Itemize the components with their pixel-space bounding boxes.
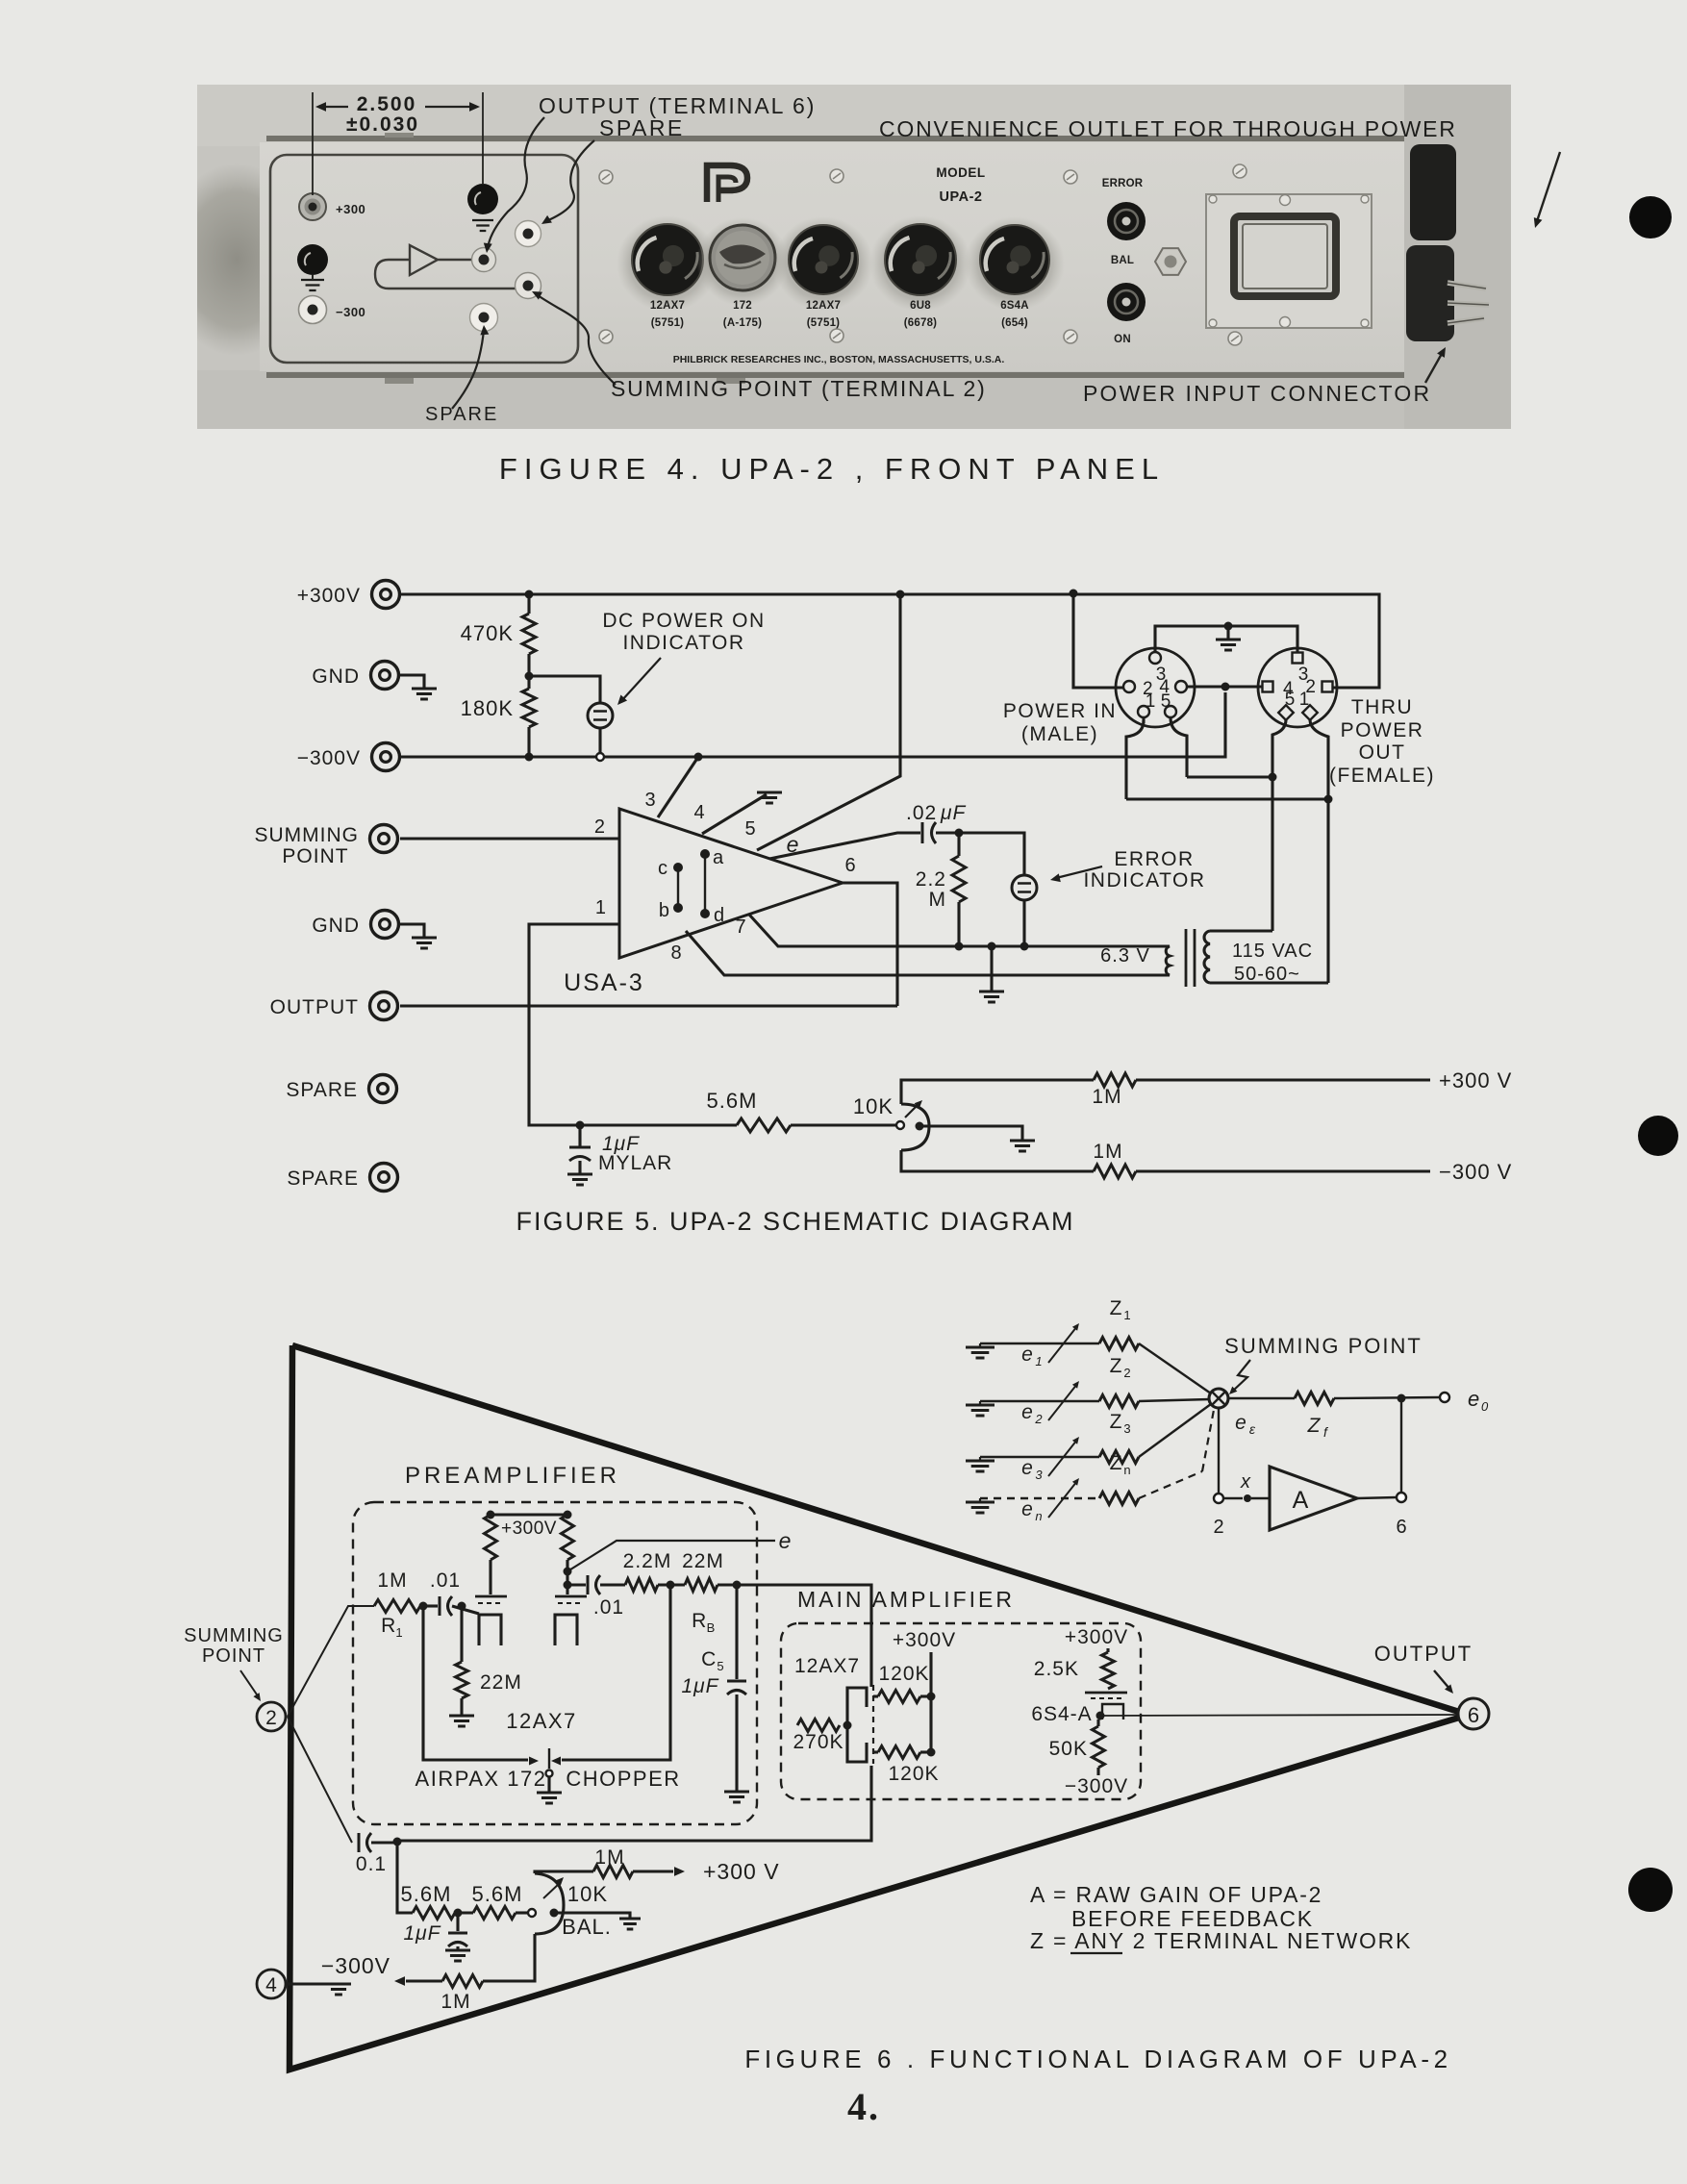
resistor 470K: [527, 594, 530, 614]
svg-text:SUMMING POINT (TERMINAL 2): SUMMING POINT (TERMINAL 2): [611, 376, 987, 401]
arrow to lamp: [621, 658, 661, 701]
wire to -300 via 1M: [901, 1150, 1094, 1171]
svg-text:22M: 22M: [682, 1550, 724, 1572]
ground 6.3 rail: [990, 946, 993, 991]
dimension lines 2.500: [313, 92, 483, 195]
binder dot: [1629, 196, 1672, 238]
svg-text:1M: 1M: [441, 1991, 470, 2013]
svg-text:AIRPAX 172: AIRPAX 172: [415, 1767, 547, 1791]
svg-text:(5751): (5751): [651, 317, 684, 329]
airpax 172 chopper: [423, 1606, 528, 1760]
jack spare top: [516, 221, 541, 247]
wire cathode to output: [1100, 1715, 1458, 1716]
capacitor .01 first: [423, 1604, 438, 1607]
resistor Z3: [1099, 1451, 1139, 1464]
arrow to thru power connector: [1537, 152, 1560, 221]
svg-text:Z = ANY 2 TERMINAL NETWORK: Z = ANY 2 TERMINAL NETWORK: [1030, 1928, 1412, 1953]
svg-text:+300V: +300V: [297, 585, 361, 607]
svg-text:INDICATOR: INDICATOR: [1083, 869, 1205, 891]
terminal SPARE: [370, 1164, 398, 1192]
svg-text:DC POWER ON: DC POWER ON: [602, 610, 765, 632]
wire pin1: [529, 924, 737, 1125]
tube 12AX7: [617, 215, 718, 312]
svg-text:5.6M: 5.6M: [707, 1089, 758, 1113]
panel amplifier symbol: [375, 260, 516, 289]
svg-text:SPARE: SPARE: [287, 1167, 359, 1190]
arrow to power input connector: [1425, 352, 1443, 383]
resistor 120K upper: [873, 1694, 878, 1697]
svg-text:INDICATOR: INDICATOR: [622, 632, 744, 654]
tube 172 chopper: [696, 217, 789, 306]
svg-text:12AX7: 12AX7: [794, 1655, 860, 1677]
wire pin4 to ground: [702, 794, 767, 834]
node terminal 2: [257, 1702, 286, 1731]
wire z3 to node: [1139, 1404, 1211, 1457]
tube 12AX7 preamp right triode: [555, 1595, 587, 1598]
svg-text:OUTPUT: OUTPUT: [270, 996, 359, 1018]
svg-text:10K: 10K: [567, 1882, 608, 1906]
svg-text:4: 4: [693, 802, 704, 823]
svg-text:(5751): (5751): [807, 317, 840, 329]
wire down to 5.6M: [397, 1842, 413, 1913]
svg-text:−300 V: −300 V: [1439, 1160, 1512, 1184]
wire to +300 via 1M: [901, 1080, 1094, 1104]
svg-text:e: e: [1021, 1343, 1033, 1366]
svg-text:6: 6: [1396, 1517, 1406, 1538]
node terminal 6 output: [1458, 1698, 1489, 1729]
capacitor .02uF: [921, 822, 924, 843]
summing node: [1209, 1389, 1228, 1408]
wire pin3 to -300V: [658, 757, 698, 817]
terminal -300V: [372, 743, 400, 771]
wire lower grid to 0.1: [397, 1766, 871, 1841]
transformer core: [1185, 929, 1188, 987]
wire z2 to node: [1139, 1399, 1210, 1401]
capacitor .01 second: [564, 1581, 572, 1590]
svg-text:e: e: [1021, 1457, 1033, 1479]
svg-text:2: 2: [1123, 1366, 1130, 1380]
jack +300: [299, 193, 326, 220]
svg-text:f: f: [1323, 1424, 1329, 1440]
svg-text:5: 5: [744, 818, 755, 840]
resistor 2.2M: [957, 833, 960, 856]
wire pin2 summing: [400, 837, 619, 840]
wire e tap: [564, 1568, 572, 1576]
svg-text:1: 1: [595, 897, 606, 918]
resistor 120K lower: [873, 1750, 878, 1753]
resistor Z1: [1099, 1338, 1139, 1350]
wire node2 to R1: [288, 1606, 374, 1717]
svg-text:3: 3: [644, 790, 655, 811]
wire male pin3 to female pin3: [1155, 626, 1297, 652]
variable arrow e3: [1048, 1440, 1077, 1476]
svg-text:OUTPUT: OUTPUT: [1374, 1642, 1473, 1666]
svg-text:FIGURE 6 . FUNCTIONAL DIAGRAM: FIGURE 6 . FUNCTIONAL DIAGRAM OF UPA-2: [744, 2045, 1451, 2073]
svg-text:+300V: +300V: [501, 1519, 557, 1539]
resistor plate left: [485, 1515, 497, 1560]
svg-text:SUMMING: SUMMING: [184, 1625, 284, 1646]
wire zn to node dashed: [1139, 1471, 1202, 1498]
wire male pin1 down: [1142, 717, 1145, 723]
ground source e2: [979, 1401, 981, 1405]
ground gnd1: [400, 675, 424, 688]
svg-text:+300V: +300V: [893, 1629, 956, 1651]
dc power on indicator lamp: [529, 676, 600, 703]
svg-text:e: e: [779, 1528, 792, 1553]
svg-text:e: e: [1021, 1498, 1033, 1520]
wire +300 main: [929, 1652, 932, 1752]
svg-text:.01: .01: [430, 1569, 461, 1592]
svg-text:1M: 1M: [1093, 1141, 1122, 1163]
terminal GND: [371, 911, 399, 939]
svg-text:Z: Z: [1110, 1452, 1122, 1474]
resistor 5.6M second: [473, 1907, 516, 1920]
wire z1 to node: [1139, 1343, 1211, 1393]
wire pin8: [686, 931, 1162, 975]
svg-text:270K: 270K: [793, 1731, 843, 1753]
svg-text:1μF: 1μF: [681, 1675, 718, 1697]
svg-text:MAIN AMPLIFIER: MAIN AMPLIFIER: [797, 1587, 1015, 1612]
transformer 6.3V winding: [1162, 946, 1170, 975]
capacitor 1uF mylar: [576, 1121, 585, 1130]
svg-text:ERROR: ERROR: [1114, 848, 1194, 870]
node terminal 4: [257, 1970, 286, 1998]
svg-text:MODEL: MODEL: [936, 165, 985, 180]
svg-text:6S4-A: 6S4-A: [1031, 1703, 1092, 1725]
lightning arrow: [1232, 1360, 1250, 1392]
svg-text:n: n: [1035, 1509, 1042, 1523]
svg-text:1M: 1M: [377, 1569, 407, 1592]
svg-text:12AX7: 12AX7: [650, 300, 685, 312]
photo background: [197, 85, 1511, 429]
svg-text:5: 5: [1285, 690, 1296, 710]
leader spare bottom: [452, 329, 484, 409]
svg-text:Z: Z: [1307, 1415, 1322, 1437]
wire female pin5 down: [1272, 719, 1286, 931]
indicator on: [1107, 283, 1146, 321]
wire pin4 to pin4: [1187, 685, 1262, 688]
svg-text:1: 1: [1299, 690, 1310, 710]
connector thru power out female: [1258, 648, 1337, 727]
svg-text:−300V: −300V: [1065, 1775, 1128, 1797]
svg-text:5.6M: 5.6M: [472, 1882, 523, 1906]
svg-text:2: 2: [594, 816, 605, 838]
resistor 2.5K: [1106, 1648, 1109, 1652]
jack summing point: [516, 273, 541, 299]
svg-text:22M: 22M: [480, 1671, 522, 1694]
ground pin3 link: [1226, 626, 1229, 639]
main amplifier dashed box: [781, 1623, 1141, 1799]
svg-text:180K: 180K: [461, 696, 514, 720]
svg-text:UPA-2: UPA-2: [940, 189, 983, 205]
chassis bottom edge: [266, 372, 1404, 378]
svg-text:6.3 V: 6.3 V: [1100, 945, 1150, 966]
svg-text:−300V: −300V: [297, 747, 361, 769]
svg-text:1M: 1M: [1092, 1086, 1121, 1108]
wiper ground: [554, 1913, 630, 1918]
svg-text:M: M: [929, 889, 947, 911]
svg-text:1μF: 1μF: [403, 1922, 441, 1945]
terminal GND: [371, 662, 399, 690]
svg-text:SPARE: SPARE: [286, 1079, 358, 1101]
resistor 2.2M preamp: [625, 1579, 658, 1592]
jack -300: [299, 296, 327, 324]
svg-text:GND: GND: [312, 665, 360, 688]
svg-text:1: 1: [1035, 1354, 1042, 1368]
wire output terminal: [400, 1004, 897, 1007]
jack black left: [297, 244, 328, 275]
svg-text:+300: +300: [336, 202, 365, 216]
svg-text:SUMMING POINT: SUMMING POINT: [1224, 1334, 1423, 1358]
svg-text:6U8: 6U8: [910, 300, 931, 312]
svg-text:3: 3: [1123, 1421, 1130, 1436]
svg-text:172: 172: [733, 300, 752, 312]
svg-text:1M: 1M: [594, 1846, 624, 1869]
svg-text:2: 2: [265, 1707, 277, 1729]
svg-text:(A-175): (A-175): [723, 317, 762, 329]
balance pot 10K: [896, 1121, 904, 1129]
wire +300V rail: [400, 594, 1379, 688]
svg-text:6: 6: [844, 855, 855, 876]
svg-text:OUT: OUT: [1359, 741, 1406, 764]
svg-text:SUMMING: SUMMING: [255, 824, 360, 846]
binder dot: [1628, 1868, 1673, 1912]
svg-text:c: c: [658, 858, 667, 879]
svg-text:FIGURE 5. UPA-2 SCHEMATIC DIAG: FIGURE 5. UPA-2 SCHEMATIC DIAGRAM: [516, 1207, 1074, 1236]
capacitor 1uF bal: [456, 1913, 459, 1931]
jack output white: [472, 248, 496, 272]
svg-text:+300V: +300V: [1065, 1626, 1128, 1648]
connector power in male: [1116, 648, 1195, 727]
svg-text:10K: 10K: [853, 1094, 894, 1118]
tube 12AX7: [773, 216, 873, 311]
leader summing point: [535, 293, 616, 385]
svg-text:2.2M: 2.2M: [623, 1550, 672, 1572]
svg-text:0: 0: [1481, 1399, 1489, 1414]
wire node2 to 0.1 cap: [288, 1717, 352, 1843]
resistor 5.6M: [737, 1118, 791, 1132]
resistor Zf: [1228, 1397, 1295, 1399]
svg-text:2: 2: [1213, 1517, 1223, 1538]
jack spare bottom: [470, 304, 498, 332]
wire source e3: [980, 1456, 1099, 1458]
svg-text:2.500: 2.500: [357, 93, 417, 115]
power input connector body: [1410, 144, 1456, 240]
balance pot 10K fig6: [528, 1909, 536, 1917]
svg-text:USA-3: USA-3: [564, 969, 644, 996]
tube 12AX7 main grids: [847, 1688, 867, 1707]
wire pin5 to +300V: [757, 594, 900, 850]
resistor 180K: [525, 672, 534, 681]
svg-text:n: n: [1123, 1463, 1130, 1477]
variable arrow e1: [1048, 1326, 1077, 1363]
svg-text:5: 5: [717, 1659, 723, 1673]
resistor 22M RB: [685, 1579, 718, 1592]
convenience outlet plate: [1206, 194, 1372, 328]
ground source e1: [979, 1343, 981, 1347]
svg-text:7: 7: [735, 916, 745, 938]
svg-text:b: b: [659, 900, 669, 921]
svg-text:4.: 4.: [847, 2085, 880, 2128]
terminal OUTPUT: [370, 992, 398, 1020]
svg-text:FIGURE 4. UPA-2 , FRONT PANEL: FIGURE 4. UPA-2 , FRONT PANEL: [499, 452, 1165, 486]
svg-text:e: e: [787, 832, 799, 857]
wire source e1: [980, 1343, 1099, 1344]
op-amp USA-3: [619, 809, 843, 958]
svg-text:+300 V: +300 V: [703, 1859, 780, 1884]
wire source e2: [980, 1400, 1099, 1402]
tube 6U8: [869, 215, 971, 312]
wire pin6 output: [843, 883, 897, 1006]
resistor 5.6M first: [413, 1907, 455, 1920]
svg-text:(6678): (6678): [904, 317, 937, 329]
svg-text:THRU: THRU: [1351, 696, 1413, 718]
bal hex nut: [1155, 248, 1186, 275]
resistor R1 1M: [374, 1600, 420, 1613]
svg-text:e: e: [1021, 1401, 1033, 1423]
svg-text:1: 1: [395, 1625, 402, 1640]
svg-text:BAL: BAL: [1111, 255, 1134, 266]
panel screws: [599, 170, 613, 184]
ground source en: [979, 1498, 981, 1502]
svg-text:4: 4: [265, 1974, 277, 1996]
svg-text:d: d: [714, 905, 724, 926]
svg-text:x: x: [1240, 1471, 1251, 1493]
svg-text:CONVENIENCE OUTLET FOR THROUGH: CONVENIENCE OUTLET FOR THROUGH POWER: [879, 116, 1457, 141]
wire 1M to -300: [483, 1934, 535, 1981]
svg-text:GND: GND: [312, 915, 360, 937]
terminal SPARE: [369, 1075, 397, 1103]
svg-text:3: 3: [1035, 1468, 1043, 1482]
svg-text:.01: .01: [593, 1596, 624, 1619]
svg-text:±0.030: ±0.030: [346, 113, 419, 136]
svg-text:120K: 120K: [878, 1663, 929, 1685]
svg-text:−300: −300: [336, 305, 365, 319]
terminal SUMMING: [370, 825, 398, 853]
wire +300 to male pin2: [1073, 593, 1123, 688]
svg-text:120K: 120K: [888, 1763, 939, 1785]
svg-text:a: a: [713, 847, 724, 868]
svg-text:50-60~: 50-60~: [1234, 964, 1300, 985]
svg-text:PHILBRICK RESEARCHES INC., BOS: PHILBRICK RESEARCHES INC., BOSTON, MASSA…: [673, 354, 1005, 365]
tube 6S4A: [965, 216, 1065, 311]
svg-text:2: 2: [1034, 1412, 1043, 1426]
svg-text:PREAMPLIFIER: PREAMPLIFIER: [405, 1463, 620, 1489]
svg-text:e: e: [1235, 1412, 1246, 1434]
svg-text:R: R: [381, 1615, 396, 1637]
error indicator lamp: [1012, 875, 1037, 900]
ground gnd2: [400, 924, 424, 937]
resistor 270K: [797, 1720, 840, 1732]
svg-text:1: 1: [1146, 691, 1156, 712]
svg-text:115 VAC: 115 VAC: [1232, 941, 1313, 962]
resistor 50K: [1096, 1720, 1099, 1726]
wire -300V rail: [400, 692, 1225, 757]
variable arrow en: [1048, 1481, 1077, 1518]
terminal +300V: [372, 581, 400, 609]
wire source en: [980, 1497, 1099, 1499]
capacitor 0.1: [358, 1833, 361, 1852]
svg-text:2.5K: 2.5K: [1034, 1658, 1079, 1680]
svg-text:470K: 470K: [461, 621, 514, 645]
panel block outline: [270, 155, 578, 363]
svg-text:A = RAW GAIN OF UPA-2: A = RAW GAIN OF UPA-2: [1030, 1882, 1322, 1907]
svg-text:Z: Z: [1110, 1297, 1122, 1319]
svg-text:(654): (654): [1001, 317, 1028, 329]
svg-text:Z: Z: [1110, 1411, 1122, 1433]
ground source e3: [979, 1457, 981, 1461]
svg-text:SPARE: SPARE: [425, 404, 498, 425]
jack output black (terminal): [467, 184, 498, 214]
wire female pin1 down: [1310, 719, 1328, 983]
wire e to cap: [769, 833, 920, 859]
svg-text:POINT: POINT: [282, 845, 348, 867]
functional amplifier triangle: [290, 1345, 1459, 2070]
svg-text:5.6M: 5.6M: [401, 1882, 452, 1906]
philbrick logo: [707, 165, 747, 202]
variable arrow e2: [1048, 1384, 1077, 1420]
svg-text:Z: Z: [1110, 1355, 1122, 1377]
svg-text:POWER INPUT CONNECTOR: POWER INPUT CONNECTOR: [1083, 381, 1431, 406]
svg-text:1: 1: [1123, 1308, 1130, 1322]
leader spare top: [546, 140, 594, 221]
svg-text:6S4A: 6S4A: [1000, 300, 1029, 312]
tube 6S4-A: [1085, 1692, 1127, 1694]
svg-text:BAL.: BAL.: [562, 1915, 612, 1939]
capacitor C5 1uF: [735, 1585, 738, 1679]
svg-text:.02: .02: [906, 802, 937, 824]
svg-text:(MALE): (MALE): [1021, 723, 1098, 745]
wire feedback: [1400, 1398, 1402, 1493]
svg-text:e: e: [1468, 1387, 1479, 1411]
svg-text:8: 8: [670, 942, 681, 964]
svg-text:12AX7: 12AX7: [506, 1709, 577, 1733]
svg-text:MYLAR: MYLAR: [598, 1152, 672, 1174]
svg-text:ERROR: ERROR: [1102, 178, 1144, 189]
svg-text:POWER: POWER: [1341, 719, 1424, 741]
svg-text:+300 V: +300 V: [1439, 1068, 1512, 1092]
transformer 115VAC winding: [1204, 931, 1210, 983]
svg-text:5: 5: [1161, 691, 1171, 712]
svg-text:A: A: [1293, 1487, 1309, 1514]
svg-text:SPARE: SPARE: [599, 115, 685, 140]
connector pins: [1448, 283, 1489, 323]
wire +300 top preamp: [491, 1513, 567, 1516]
binder dot: [1638, 1116, 1678, 1156]
ground terminal 4: [286, 1982, 334, 1985]
svg-text:12AX7: 12AX7: [806, 300, 841, 312]
svg-text:μF: μF: [940, 802, 967, 824]
wire pin7: [749, 915, 1162, 946]
amplifier A: [1270, 1467, 1357, 1530]
resistor Z2: [1099, 1395, 1139, 1408]
chassis top edge: [266, 136, 1404, 141]
svg-text:ε: ε: [1249, 1421, 1256, 1437]
svg-text:−300V: −300V: [321, 1953, 390, 1978]
resistor 22M preamp: [460, 1606, 463, 1662]
svg-text:R: R: [692, 1610, 707, 1632]
resistor Zn: [1099, 1493, 1139, 1505]
leader output terminal6: [488, 117, 544, 248]
svg-text:2.2: 2.2: [916, 868, 946, 891]
wire male pin5 down: [1171, 717, 1187, 777]
svg-text:C: C: [701, 1648, 717, 1670]
wire 1M to +300: [535, 1871, 593, 1873]
svg-text:(FEMALE): (FEMALE): [1329, 765, 1435, 787]
wiper to ground: [919, 1126, 1022, 1141]
svg-text:6: 6: [1468, 1703, 1479, 1727]
svg-text:CHOPPER: CHOPPER: [566, 1767, 680, 1791]
